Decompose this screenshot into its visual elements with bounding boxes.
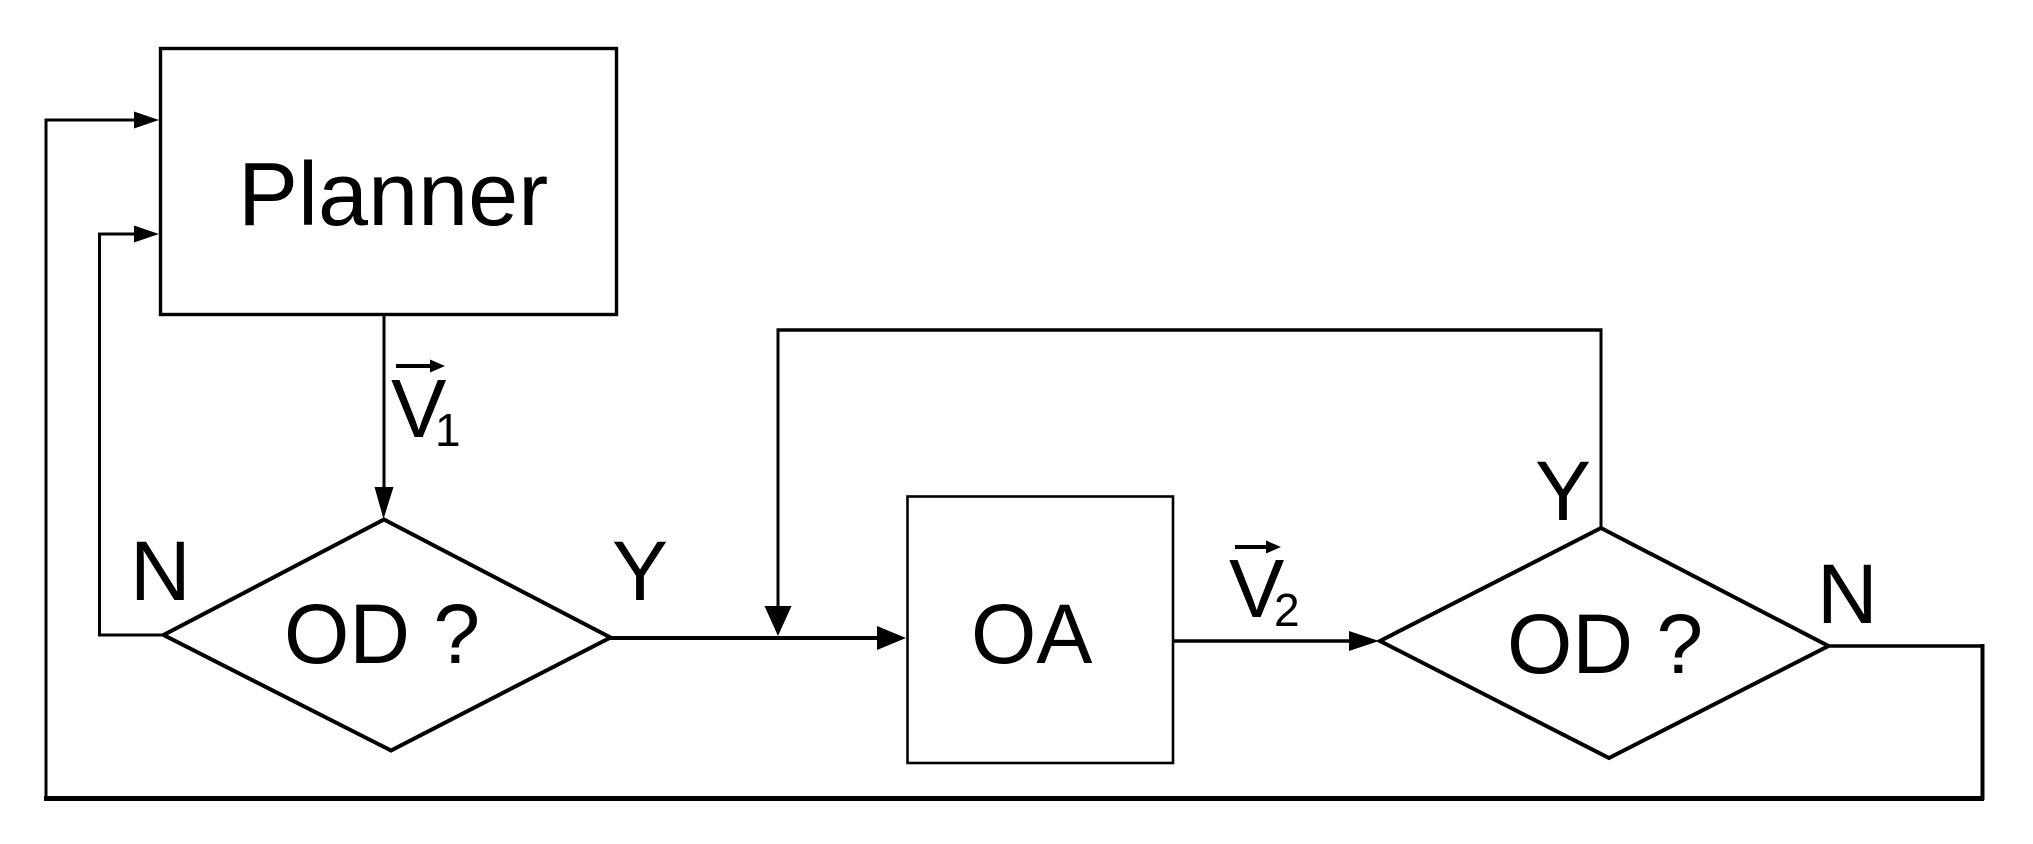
wire feedback top (from above OA to right diamond top) [777,328,1603,332]
svg-text:OA: OA [971,587,1092,681]
svg-text:OD ?: OD ? [1507,597,1703,691]
svg-text:OD ?: OD ? [284,587,480,681]
svg-text:Planner: Planner [238,145,548,245]
wire outer-loop right vertical [1981,644,1985,800]
box Planner [161,49,617,315]
decision diamond right OD? [1380,528,1829,758]
wire outer-loop bottom (N return to Planner) [44,796,1984,801]
wire outer-loop top into Planner [45,119,137,122]
arrowhead into Planner (inner loop) [134,226,159,243]
svg-text:2: 2 [1274,584,1300,636]
arrowhead V1 into left diamond [375,487,394,519]
wire N exit of right OD diamond [1826,644,1984,648]
svg-text:1: 1 [435,404,461,456]
svg-text:Y: Y [1535,444,1591,538]
label V2 vector arrow [1235,545,1269,549]
label V1 vector arrow [396,364,433,368]
wire inner-loop left vertical [98,233,101,637]
wire inner-loop top into Planner [98,233,136,236]
svg-text:N: N [1817,547,1878,641]
svg-text:Y: Y [612,524,668,618]
wire right diamond top vertical (Y return) [1600,330,1603,528]
svg-text:N: N [130,524,191,618]
wire V1 from Planner to left OD diamond [383,315,386,489]
wire inner-loop bottom (N exit of left OD diamond) [98,634,166,637]
decision diamond left OD? [164,520,611,751]
arrowhead into Planner (outer loop) [134,112,159,129]
arrowhead feedback onto OA input line [765,606,792,636]
wire V2 from OA to right diamond [1173,639,1352,643]
arrowhead V2 into right diamond [1349,631,1379,651]
box OA [908,497,1174,764]
arrowhead into OA [877,626,906,650]
wire feedback vertical down to OA input [777,329,780,609]
wire outer-loop left vertical [45,119,48,801]
wire Y exit of left diamond into OA [610,636,879,640]
